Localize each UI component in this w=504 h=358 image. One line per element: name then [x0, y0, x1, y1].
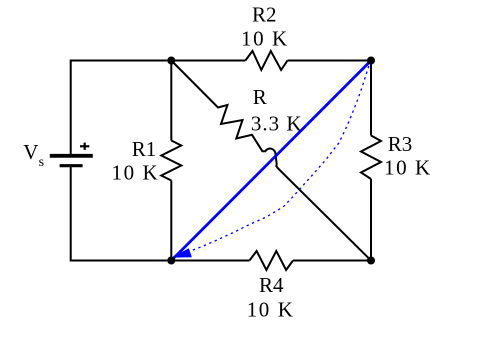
resistor R4 — [250, 251, 294, 270]
svg-text:R: R — [253, 85, 267, 109]
svg-text:R3: R3 — [388, 132, 413, 156]
node A (top-left junction dot) — [167, 57, 175, 65]
svg-text:s: s — [39, 155, 44, 170]
battery Vs negative plate — [60, 164, 83, 167]
wire: top-left rail from battery to node A — [71, 61, 172, 156]
resistor R1 — [161, 141, 181, 181]
wire: R4 right to node D — [293, 260, 371, 262]
svg-text:R2: R2 — [252, 3, 277, 27]
resistor R2 — [245, 51, 287, 70]
node B (top-right junction dot) — [367, 57, 375, 65]
blue solid arrow line from node B to node C — [173, 61, 372, 260]
wire: node A to R1 top — [170, 61, 172, 141]
node D (bottom-right junction dot) — [367, 257, 375, 265]
wire: bottom-left rail from battery to node C — [71, 166, 172, 261]
battery Vs positive plate — [50, 154, 93, 158]
wire: node A to R2 left — [171, 60, 245, 62]
svg-text:3.3 K: 3.3 K — [251, 112, 303, 136]
wire: R3 bottom to node D — [370, 179, 372, 261]
svg-text:10 K: 10 K — [247, 298, 295, 322]
resistor R3 — [361, 136, 381, 180]
wire: node B to R3 top — [370, 61, 372, 136]
resistor R diagonal with wire hop over blue line, node A to node D — [171, 61, 371, 261]
blue dashed curved arrow from node B sweeping to node C — [192, 61, 371, 251]
wire: node C to R4 left — [171, 260, 249, 262]
svg-text:V: V — [23, 140, 38, 164]
wire: R1 bottom to node C — [170, 181, 172, 261]
svg-text:R4: R4 — [259, 273, 284, 297]
svg-text:10 K: 10 K — [112, 161, 160, 185]
svg-text:10 K: 10 K — [384, 156, 432, 180]
blue arrowhead at node C — [172, 248, 192, 257]
battery plus sign — [80, 143, 89, 150]
node C (bottom-left junction dot) — [167, 257, 175, 265]
svg-text:10 K: 10 K — [241, 27, 289, 51]
svg-text:R1: R1 — [132, 137, 157, 161]
wire: R2 right to node B — [288, 60, 372, 62]
